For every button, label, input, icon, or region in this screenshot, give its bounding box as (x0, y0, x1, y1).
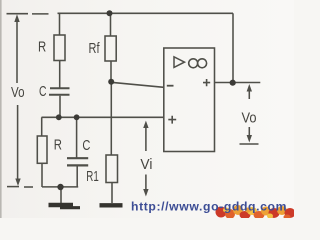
ground 2 bar (100, 203, 123, 207)
svg-text:C: C (82, 137, 90, 154)
svg-text:Vo: Vo (11, 84, 25, 101)
wire top rail (58, 12, 234, 14)
Vo left dimension up arrowhead (14, 14, 19, 22)
op-amp U1 noninverting plus mark (168, 116, 176, 124)
Vo left dimension line upper (16, 19, 18, 83)
Vo right dimension up arrowhead (247, 84, 252, 92)
Vi dimension up arrowhead (143, 121, 148, 128)
wire lower capacitor C to bottom node (76, 167, 78, 188)
Vo right dimension bottom bar (240, 143, 259, 145)
resistor Rf box (105, 36, 116, 61)
Vo left dimension bottom bar (7, 186, 19, 188)
Vo left dimension top dash (32, 13, 49, 15)
wire node to lower resistor R (41, 117, 43, 136)
op-amp U1 infinity left circle (189, 59, 198, 68)
junction dot bottom node (57, 184, 63, 190)
Vo left dimension down arrowhead (15, 179, 20, 187)
op-amp U1 box (164, 48, 215, 152)
wire node to lower capacitor C (76, 117, 78, 157)
wire capacitor C to node line (59, 96, 61, 118)
wire bottom node to ground (60, 187, 62, 203)
resistor R lower box (37, 136, 47, 163)
Vi dimension down arrowhead (143, 189, 148, 197)
op-amp U1 infinity right circle (198, 59, 207, 68)
ground 1 bar (49, 203, 74, 207)
scan edge shadow left (0, 0, 2, 218)
capacitor C lower plate top (67, 157, 88, 159)
op-amp U1 triangle (174, 57, 185, 68)
svg-text:http://www.go-gddq.com: http://www.go-gddq.com (131, 200, 287, 214)
wire resistor Rf to junction (110, 61, 112, 81)
wire inverting input (111, 82, 164, 87)
junction dot Rf R1 inverting (108, 79, 114, 85)
junction dot node lower C (74, 114, 80, 120)
op-amp U1 minus mark (167, 85, 174, 87)
svg-text:Rf: Rf (89, 40, 101, 57)
resistor R1 box (106, 155, 118, 183)
svg-text:R: R (54, 137, 62, 154)
wire bottom node (42, 186, 78, 188)
svg-text:R1: R1 (86, 168, 99, 185)
Vo right dimension line upper (248, 89, 250, 99)
wire resistor R1 to ground (111, 183, 113, 204)
wire output (215, 82, 261, 84)
wire top to resistor R (59, 13, 61, 35)
svg-text:C: C (39, 83, 47, 100)
capacitor C upper plate bottom (49, 94, 70, 96)
resistor R top box (54, 35, 65, 61)
svg-text:Vo: Vo (242, 110, 257, 127)
Vi dimension line lower (145, 175, 147, 191)
wire junction to resistor R1 (110, 82, 112, 155)
svg-text:R: R (38, 39, 46, 56)
wire top to resistor Rf (110, 13, 112, 36)
Vo left dimension bottom dash (24, 186, 33, 188)
Vo left dimension line lower (17, 105, 19, 180)
junction dot node upper C (56, 114, 62, 120)
svg-text:Vi: Vi (140, 156, 152, 173)
wire lower resistor R to bottom node (41, 163, 43, 187)
junction dot top rail Rf (107, 10, 113, 16)
capacitor C lower plate bottom (67, 164, 88, 166)
ground 1 bar smudge (60, 206, 80, 209)
wire resistor R to capacitor C (59, 61, 61, 88)
capacitor C upper plate top (50, 87, 70, 89)
Vo right dimension line lower (248, 127, 250, 137)
wire right drop to output (232, 13, 234, 82)
Vo left dimension top bar (7, 13, 29, 15)
Vi dimension line upper (145, 126, 147, 151)
Vo right dimension down arrowhead (247, 135, 252, 143)
junction dot output (230, 80, 236, 86)
op-amp U1 output plus mark (203, 79, 210, 86)
watermark logo flame blobs (216, 205, 296, 220)
node line non-inverting net (42, 116, 164, 118)
